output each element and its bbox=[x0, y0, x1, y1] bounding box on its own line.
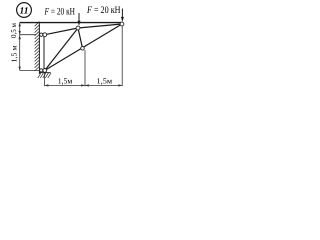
vertical member A-B bbox=[43, 35, 45, 71]
node D bbox=[120, 22, 124, 26]
node C bbox=[76, 26, 80, 30]
svg-text:1,5м: 1,5м bbox=[58, 77, 73, 86]
left dimension line bbox=[19, 23, 40, 71]
wall face line bbox=[38, 22, 40, 74]
wall hatching bbox=[35, 22, 40, 71]
svg-text:0,5 м: 0,5 м bbox=[9, 23, 18, 38]
support under B bbox=[38, 73, 51, 78]
svg-text:1,5 м: 1,5 м bbox=[10, 45, 19, 62]
node A bbox=[43, 33, 47, 37]
svg-text:F = 20 кН: F = 20 кН bbox=[86, 5, 120, 16]
link C-E bbox=[78, 28, 83, 48]
svg-text:F = 20 кН: F = 20 кН bbox=[44, 6, 75, 17]
extension below node B bbox=[44, 73, 46, 87]
svg-text:1,5м: 1,5м bbox=[97, 77, 113, 86]
svg-text:11: 11 bbox=[20, 6, 29, 16]
arrowhead up at top bbox=[19, 23, 21, 27]
bottom dimension line bbox=[45, 84, 123, 86]
extension below node E bbox=[84, 50, 86, 86]
node E bbox=[81, 47, 85, 51]
node B bbox=[43, 69, 47, 73]
strut C-D bbox=[78, 24, 122, 28]
extension below node D bbox=[121, 26, 123, 86]
arrowhead left at B bbox=[45, 84, 49, 86]
arrowheads at E extension bbox=[81, 84, 85, 86]
force arrow F1 bbox=[78, 13, 81, 26]
force arrow F2 bbox=[121, 9, 124, 22]
diagonal B-D bbox=[45, 24, 122, 70]
arrowhead down at B bbox=[19, 67, 21, 71]
strut A-C bbox=[45, 28, 78, 35]
diagonal B-C bbox=[45, 28, 78, 70]
arrowhead right at D bbox=[118, 84, 122, 86]
arrowhead down at A bbox=[19, 31, 21, 35]
beam top chord A'-D bbox=[20, 22, 123, 24]
wall pin bottom bbox=[40, 69, 43, 72]
extension at B level bbox=[20, 69, 40, 71]
extension at A level bbox=[20, 34, 36, 36]
wall pin top bbox=[40, 33, 43, 36]
problem number badge 11 bbox=[17, 3, 32, 18]
arrowhead up below A bbox=[19, 35, 21, 39]
